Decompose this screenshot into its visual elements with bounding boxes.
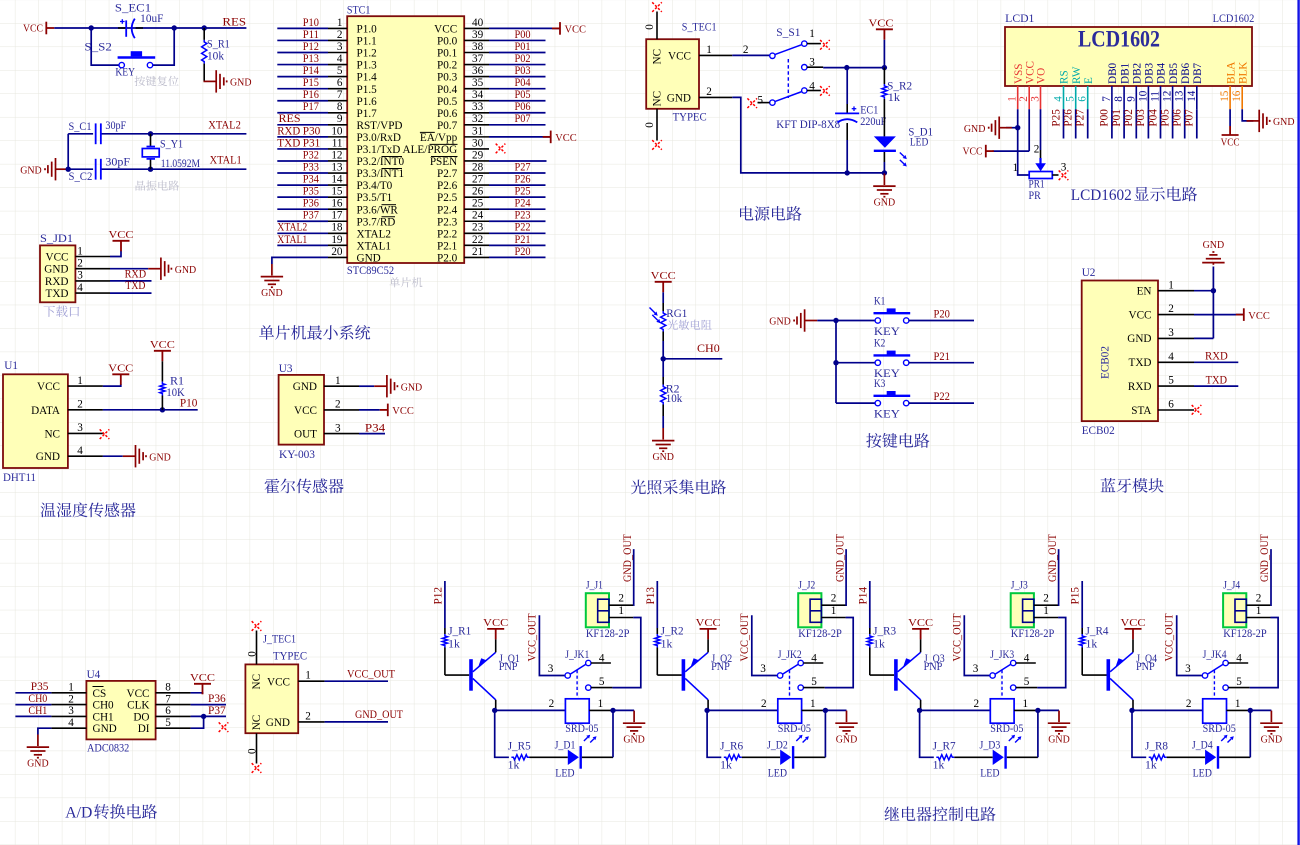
svg-text:P1.4: P1.4	[357, 72, 378, 84]
svg-text:U1: U1	[4, 360, 18, 372]
wire LED branch down	[707, 710, 721, 757]
svg-text:P36: P36	[303, 198, 319, 210]
wire LCD pin1 VSS down to PR1	[1018, 109, 1029, 175]
svg-text:S_S1: S_S1	[776, 27, 800, 39]
svg-text:P31: P31	[303, 137, 321, 149]
svg-text:4: 4	[809, 81, 815, 93]
pin 30 ALE/PROG of STC1	[464, 148, 489, 150]
wire J_R5 to LED	[529, 756, 567, 758]
pin 5 DI of U4	[156, 727, 191, 729]
power flag VCC (reset circuit)	[46, 22, 54, 35]
svg-text:4: 4	[811, 653, 817, 665]
no connect X bottom S_TEC1	[652, 140, 662, 150]
svg-text:J_JK3: J_JK3	[990, 649, 1014, 661]
wire net P02 LCD pin 9	[1135, 109, 1137, 138]
relay SRD-05 body J1	[565, 699, 589, 723]
wire LCD pin16 BLK to GND	[1242, 109, 1253, 121]
svg-text:DI: DI	[138, 723, 150, 735]
switch J_JK3 pin4 terminal	[1011, 660, 1016, 665]
node junction LED bottom	[882, 170, 887, 175]
sensor U3 KY-003 body	[279, 375, 324, 445]
power ground GND (crystal)	[45, 158, 68, 180]
svg-text:1: 1	[1043, 605, 1049, 617]
svg-text:VCC: VCC	[565, 24, 587, 36]
svg-text:A/D: A/D	[65, 805, 92, 822]
overline WR pin16	[382, 204, 397, 206]
node junction C2/GND	[66, 167, 71, 172]
wire VCC to pin2	[993, 150, 1030, 152]
switch J_JK4 pin3 terminal	[1202, 673, 1207, 678]
svg-text:P2.4: P2.4	[437, 204, 458, 216]
title 霍尔传感器	[265, 478, 344, 493]
svg-text:3: 3	[548, 663, 554, 675]
svg-text:33: 33	[472, 101, 484, 113]
pin 3 P1.2 of STC1	[328, 52, 347, 54]
svg-text:TXD: TXD	[46, 288, 69, 300]
svg-text:J_D2: J_D2	[767, 740, 788, 752]
svg-text:NC: NC	[251, 715, 263, 731]
wire VCC to RG1	[662, 292, 664, 303]
svg-text:VCC: VCC	[1221, 136, 1240, 148]
wire P12 vertical	[444, 581, 446, 628]
potentiometer PR1 body	[1029, 172, 1052, 179]
switch J_JK1 pin3 terminal	[565, 673, 570, 678]
svg-text:VCC: VCC	[190, 672, 215, 684]
svg-text:STC1: STC1	[347, 4, 371, 16]
svg-text:2: 2	[549, 698, 555, 710]
wire RXD	[110, 280, 152, 282]
pin 18 XTAL2 of STC1	[328, 232, 347, 234]
power flag VCC (U3)	[380, 404, 388, 417]
wire GND pin20 of STC1	[272, 257, 328, 264]
svg-text:2: 2	[743, 44, 749, 56]
pin 3 CH1 of U4	[51, 715, 86, 717]
svg-text:XTAL1: XTAL1	[277, 234, 307, 246]
svg-text:XTAL2: XTAL2	[357, 228, 392, 240]
svg-text:P1.0: P1.0	[357, 24, 378, 36]
svg-text:2: 2	[974, 698, 980, 710]
switch J_JK2 pin3 terminal	[777, 673, 782, 678]
comment 晶振电路	[136, 180, 180, 190]
pin 40 VCC of STC1	[464, 27, 489, 29]
node junction DO/DI	[201, 714, 206, 719]
svg-text:CH1: CH1	[93, 711, 114, 723]
module U2 ECB02 body	[1082, 281, 1158, 422]
svg-text:VCC: VCC	[126, 688, 149, 700]
overline CS U4	[93, 686, 104, 688]
power flag VCC below pin15	[1222, 126, 1239, 135]
svg-text:EC1: EC1	[860, 105, 878, 117]
pin 8 VCC of U4	[156, 692, 191, 694]
wire U4 GND	[38, 728, 52, 734]
wire pin2 to ground bus	[732, 97, 884, 172]
svg-text:2: 2	[77, 258, 83, 270]
svg-text:TYPEC: TYPEC	[673, 112, 707, 124]
power flag VCC (pin40)	[552, 22, 560, 35]
power flag VCC (J_Q4)	[1125, 629, 1142, 640]
svg-text:VCC_OUT: VCC_OUT	[526, 613, 538, 661]
title 继电器控制电路	[885, 807, 996, 822]
pin 3 OUT of U3	[324, 433, 359, 435]
pin 2 of J_TEC1	[298, 721, 324, 723]
svg-text:P10: P10	[303, 17, 319, 29]
wire base J_Q2	[656, 648, 658, 676]
svg-text:GND: GND	[175, 264, 197, 276]
pin 35 P0.4 of STC1	[464, 88, 489, 90]
svg-text:P33: P33	[303, 161, 319, 173]
svg-text:P3.3/INT1: P3.3/INT1	[357, 168, 405, 180]
wire relay pin1 to node	[589, 709, 613, 711]
svg-text:37: 37	[472, 53, 484, 65]
resistor R2 10k	[661, 385, 666, 405]
svg-text:LED: LED	[768, 767, 787, 779]
svg-text:P02: P02	[1123, 109, 1135, 127]
wire LCD pin3 VO to wiper	[1040, 109, 1042, 150]
svg-text:25: 25	[472, 198, 484, 210]
pin 5 P1.4 of STC1	[328, 76, 347, 78]
wire VCC to emitter	[707, 639, 709, 652]
svg-text:KEY: KEY	[874, 409, 900, 421]
svg-text:NC: NC	[652, 91, 664, 107]
svg-text:P27: P27	[515, 161, 531, 173]
wire pin1 to switch	[732, 54, 769, 56]
svg-text:P0.2: P0.2	[437, 60, 457, 72]
wire pin31 to VCC	[489, 136, 551, 138]
node junction collector J_Q4	[1129, 708, 1134, 713]
no connect X top S_TEC1	[652, 2, 662, 12]
wire CH0	[663, 358, 722, 360]
svg-text:S_S2: S_S2	[84, 41, 112, 53]
node junction RES/S_R1	[202, 25, 207, 30]
wire collector to node	[1132, 700, 1134, 711]
svg-text:P27: P27	[1075, 109, 1087, 127]
crystal S_Y1 11.0592M	[150, 134, 152, 147]
svg-text:1: 1	[1168, 279, 1174, 291]
pin 6 STA of U2	[1158, 409, 1194, 411]
node junction CH0	[661, 356, 666, 361]
svg-text:DO: DO	[133, 711, 149, 723]
power flag VCC (S_JD1)	[113, 241, 130, 252]
svg-text:S_C2: S_C2	[69, 171, 93, 183]
wire VCC to R1	[161, 361, 163, 381]
resistor J_R1 1k	[442, 634, 447, 648]
svg-text:1: 1	[809, 28, 815, 40]
transistor J_Q4 PNP	[1107, 659, 1111, 691]
svg-text:J_R3: J_R3	[873, 625, 896, 637]
node junction S_EC1 right	[172, 25, 177, 30]
svg-text:P02: P02	[515, 53, 531, 65]
wire XTAL1 row	[68, 168, 93, 170]
svg-text:J_R4: J_R4	[1086, 625, 1109, 637]
svg-text:4: 4	[1236, 653, 1242, 665]
svg-text:5: 5	[1236, 676, 1242, 688]
pin 4 TXD of U2	[1158, 361, 1194, 363]
wire base J_Q4	[1081, 648, 1083, 676]
wire net P21	[909, 362, 974, 364]
wire EC1 branch	[846, 68, 848, 104]
svg-text:P1.6: P1.6	[357, 96, 378, 108]
wire LED to right node	[1219, 756, 1250, 758]
svg-text:VO: VO	[1036, 68, 1048, 84]
switch S_S1 pin2 terminal	[770, 53, 775, 58]
wire net P04 pin 35	[489, 88, 546, 90]
overline INT1 pin13	[382, 168, 403, 170]
wire net P35	[15, 692, 51, 694]
svg-text:34: 34	[472, 89, 484, 101]
wire EN to junction	[1194, 290, 1213, 292]
svg-text:8: 8	[337, 101, 343, 113]
switch J_JK4 pin5 terminal	[1223, 685, 1228, 690]
wire pin40 to VCC	[489, 27, 560, 29]
svg-text:P04: P04	[515, 77, 531, 89]
potentiometer PR1 wiper arrow	[1035, 163, 1046, 171]
svg-text:6: 6	[1168, 399, 1174, 411]
wire net P07 LCD pin 14	[1196, 109, 1198, 138]
pin 2 stub (J_J2)	[821, 604, 845, 606]
pin 4 TXD of S_JD1	[75, 292, 110, 294]
wire VCC to emitter	[495, 639, 497, 652]
svg-text:2: 2	[305, 710, 311, 722]
svg-text:P03: P03	[515, 65, 531, 77]
svg-text:P14: P14	[857, 587, 869, 605]
svg-text:P07: P07	[1184, 109, 1196, 127]
wire net P01 pin 38	[489, 52, 546, 54]
wire net P32 pin 12	[277, 160, 328, 162]
svg-text:5: 5	[1024, 676, 1030, 688]
svg-text:P3.2/INT0: P3.2/INT0	[357, 156, 405, 168]
pin 27 P2.6 of STC1	[464, 184, 489, 186]
pin 1 GND of U3	[324, 385, 359, 387]
svg-text:GND: GND	[36, 451, 60, 463]
svg-text:8: 8	[165, 682, 171, 694]
svg-text:VCC: VCC	[963, 146, 983, 158]
svg-text:RXD: RXD	[1205, 351, 1228, 363]
svg-text:24: 24	[472, 210, 484, 222]
wire net P25 LCD pin 4	[1063, 109, 1065, 138]
svg-text:PR: PR	[1029, 190, 1042, 202]
svg-text:3: 3	[77, 422, 83, 434]
wire P13 vertical	[656, 581, 658, 628]
svg-text:J_R1: J_R1	[448, 625, 471, 637]
svg-text:LCD1602: LCD1602	[1213, 13, 1255, 25]
wire U3 pin2 to VCC	[359, 409, 380, 411]
svg-text:P22: P22	[934, 391, 950, 403]
svg-text:U3: U3	[279, 363, 293, 375]
svg-text:GND: GND	[1273, 116, 1295, 128]
pin 11 DB4 of LCD1	[1160, 86, 1162, 109]
svg-text:J_JK1: J_JK1	[565, 649, 589, 661]
pin 1 CS of U4	[51, 692, 86, 694]
wire net P22	[909, 402, 974, 404]
svg-text:P3.0/RxD: P3.0/RxD	[357, 132, 401, 144]
svg-text:DB3: DB3	[1144, 62, 1156, 84]
wire GND_OUT vertical (relay 1)	[632, 549, 635, 605]
svg-text:OUT: OUT	[294, 429, 317, 441]
pin 5 RXD of U2	[1158, 385, 1194, 387]
svg-text:2: 2	[1168, 303, 1174, 315]
svg-text:VSS: VSS	[1013, 63, 1025, 84]
switch J_JK3 pin3 terminal	[990, 673, 995, 678]
pin 14 P3.4/T0 of STC1	[328, 184, 347, 186]
wire VCC_OUT branch (relay 4)	[1177, 615, 1203, 675]
svg-text:J_TEC1: J_TEC1	[263, 634, 296, 646]
svg-text:3: 3	[337, 41, 343, 53]
wire net GND_OUT	[325, 721, 388, 723]
pin 29 PSEN of STC1	[464, 160, 489, 162]
wire net P22 pin 23	[489, 232, 546, 234]
svg-text:P12: P12	[303, 41, 319, 53]
overline PROG pin30	[430, 143, 458, 145]
svg-text:J_J1: J_J1	[586, 580, 603, 592]
wire GND to key bus	[817, 320, 836, 322]
pin 39 P0.0 of STC1	[464, 39, 489, 41]
wire node to relay pin2	[920, 709, 991, 711]
svg-text:17: 17	[331, 210, 343, 222]
switch J_JK4 pin4 terminal	[1223, 660, 1228, 665]
svg-text:LED: LED	[1193, 767, 1212, 779]
svg-text:1: 1	[810, 698, 816, 710]
connector S_JD1 body	[40, 245, 75, 302]
wire GND pin3 (U2)	[1194, 337, 1213, 339]
svg-text:P00: P00	[515, 29, 531, 41]
svg-text:36: 36	[472, 65, 484, 77]
sheet border right edge	[1297, 0, 1299, 845]
svg-text:22: 22	[472, 234, 483, 246]
svg-text:VCC: VCC	[1248, 310, 1270, 322]
pin 2 stub (J_J3)	[1034, 604, 1058, 606]
svg-text:CH0: CH0	[93, 700, 115, 712]
wire VCC to emitter	[1132, 639, 1134, 652]
wire net P34 pin 14	[277, 184, 328, 186]
svg-text:J_R7: J_R7	[933, 741, 956, 753]
dashed link J_JK4 to relay	[1213, 670, 1215, 698]
svg-text:P15: P15	[1070, 587, 1082, 605]
svg-text:1: 1	[77, 245, 83, 257]
LED J_D1	[568, 750, 579, 765]
wire net P03 LCD pin 10	[1147, 109, 1149, 138]
wire net XTAL1 pin 19	[277, 244, 328, 246]
svg-text:1k: 1k	[508, 760, 520, 772]
svg-text:J_JK2: J_JK2	[778, 649, 802, 661]
wire DATA net P10	[103, 409, 198, 411]
svg-text:14: 14	[331, 173, 343, 185]
power ground GND (reset)	[204, 70, 227, 92]
svg-text:3: 3	[1061, 162, 1067, 174]
svg-text:S_R2: S_R2	[887, 80, 912, 92]
pin 21 P2.0 of STC1	[464, 256, 489, 258]
wire net P27 pin 28	[489, 172, 546, 174]
svg-text:STA: STA	[1131, 405, 1151, 417]
svg-text:P34: P34	[365, 423, 386, 435]
svg-text:1k: 1k	[888, 92, 901, 104]
svg-text:30: 30	[472, 137, 484, 149]
wire pin4 (J_JK3)	[1016, 662, 1036, 664]
relay SRD-05 body J2	[778, 699, 802, 723]
power ground GND (relay 1)	[623, 711, 645, 734]
svg-text:GND_OUT: GND_OUT	[355, 709, 403, 721]
svg-text:NC: NC	[251, 674, 263, 690]
wire net P04 LCD pin 11	[1160, 109, 1162, 138]
switch J_JK1 pin4 terminal	[586, 660, 591, 665]
svg-text:VCC: VCC	[908, 617, 933, 629]
svg-text:27: 27	[472, 173, 484, 185]
svg-text:R1: R1	[170, 376, 184, 388]
svg-text:P15: P15	[303, 77, 319, 89]
switch K3 KEY	[836, 402, 875, 404]
pin 1 of J_TEC1	[298, 680, 324, 682]
svg-text:EA/Vpp: EA/Vpp	[420, 132, 458, 144]
svg-text:K2: K2	[874, 338, 886, 350]
transistor J_Q2 PNP	[682, 659, 686, 691]
node junction XTAL1	[148, 167, 153, 172]
connector J_TEC1 TYPEC body	[245, 664, 298, 733]
svg-text:PSEN: PSEN	[430, 156, 457, 168]
svg-text:GND_OUT: GND_OUT	[622, 534, 634, 582]
wire net P17 pin 8	[277, 112, 328, 114]
wire VCC_OUT branch (relay 1)	[539, 615, 565, 675]
wire pin5 to connector pin1	[803, 687, 825, 689]
wire pin5 to connector pin1	[591, 687, 613, 689]
comment 光敏电阻	[667, 320, 711, 330]
pin 28 P2.7 of STC1	[464, 172, 489, 174]
svg-text:GND_OUT: GND_OUT	[1259, 534, 1271, 582]
switch J_JK3 lever	[995, 664, 1011, 674]
svg-text:CLK: CLK	[127, 700, 149, 712]
power ground GND (S_JD1)	[148, 258, 171, 280]
svg-text:P1.5: P1.5	[357, 84, 378, 96]
wire net P23 pin 24	[489, 220, 546, 222]
wire net P13 pin 4	[277, 64, 328, 66]
svg-text:DB4: DB4	[1156, 62, 1168, 84]
pin 14 DB7 of LCD1	[1196, 86, 1198, 109]
resistor J_R4 1k	[1080, 634, 1085, 648]
svg-text:RES: RES	[279, 113, 301, 125]
svg-text:TXD: TXD	[1129, 357, 1152, 369]
svg-text:J_JK4: J_JK4	[1203, 649, 1227, 661]
svg-text:P21: P21	[515, 234, 531, 246]
svg-text:VCC_OUT: VCC_OUT	[739, 613, 751, 661]
capacitor S_EC1 10uF (polarized)	[120, 19, 135, 39]
svg-text:KF128-2P: KF128-2P	[586, 628, 630, 640]
svg-text:STC89C52: STC89C52	[347, 265, 394, 277]
svg-text:PR1: PR1	[1029, 179, 1045, 191]
resistor S_R1 10k	[203, 28, 205, 40]
svg-text:7: 7	[1101, 96, 1113, 102]
wire base J_Q1	[444, 648, 446, 676]
svg-text:29: 29	[472, 149, 484, 161]
svg-text:2: 2	[1256, 593, 1262, 605]
wire node to GND stem	[1038, 709, 1059, 711]
svg-text:1: 1	[1023, 698, 1029, 710]
resistor J_R8 1k	[1149, 755, 1167, 760]
svg-text:12: 12	[1162, 91, 1174, 102]
svg-text:2: 2	[1043, 593, 1049, 605]
overline EA pin31	[420, 131, 435, 133]
svg-text:1: 1	[618, 605, 624, 617]
svg-text:CH0: CH0	[697, 343, 720, 355]
svg-text:VCC: VCC	[150, 339, 175, 351]
svg-text:VCC: VCC	[869, 18, 894, 30]
relay arrows (J2)	[796, 737, 800, 741]
svg-text:DATA: DATA	[31, 405, 60, 417]
svg-text:XTAL2: XTAL2	[277, 222, 307, 234]
svg-text:2: 2	[1034, 143, 1040, 155]
title 蓝牙模块	[1101, 478, 1164, 493]
svg-text:BLA: BLA	[1225, 62, 1237, 84]
wire net P00 pin 39	[489, 39, 546, 41]
relay SRD-05 body J3	[990, 699, 1014, 723]
pin 12 P3.2/INT0 of STC1	[328, 160, 347, 162]
